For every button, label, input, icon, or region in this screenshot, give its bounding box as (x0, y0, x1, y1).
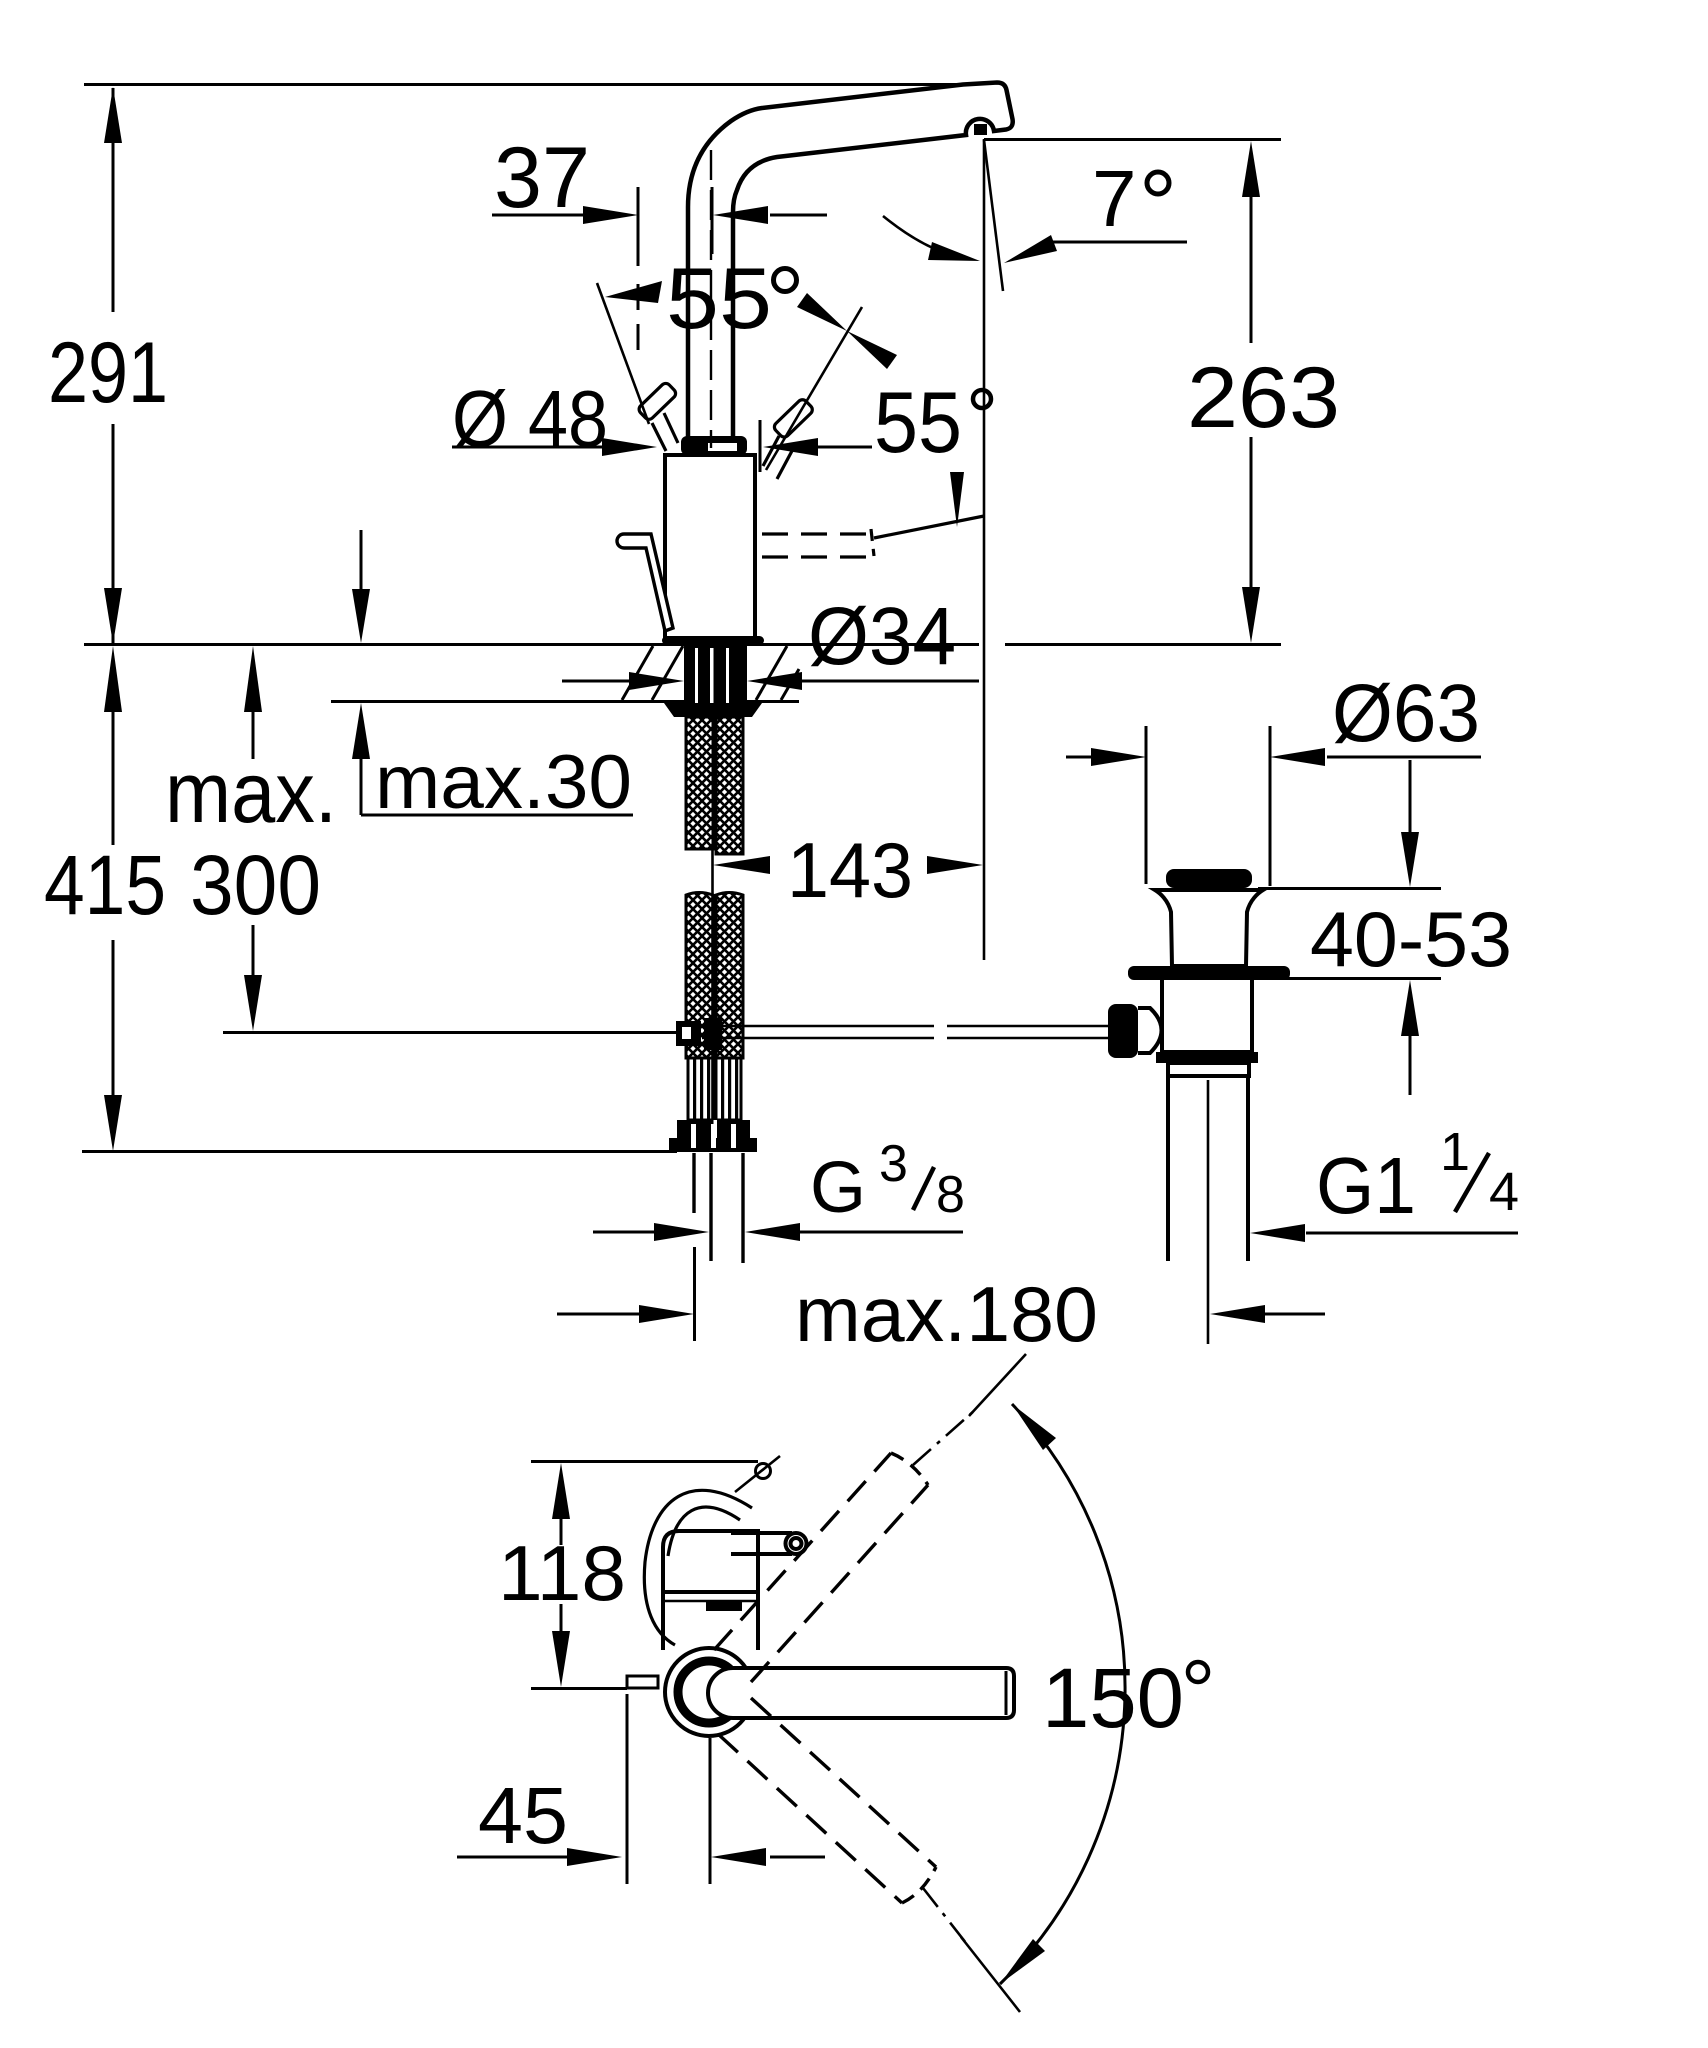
dimension Ø63 (1066, 726, 1481, 886)
drain gasket (1128, 966, 1290, 980)
118 bottom reference line (531, 1687, 627, 1690)
dimension 263 vertical (984, 140, 1281, 644)
threaded shank (684, 645, 747, 703)
drain body (1162, 980, 1252, 1052)
svg-text:55: 55 (666, 251, 772, 347)
svg-text:150: 150 (1042, 1651, 1184, 1745)
rod coupler (676, 1021, 701, 1046)
150-degree arc (1000, 1404, 1125, 1984)
svg-text:Ø34: Ø34 (808, 591, 956, 682)
drain lower bands (1156, 1052, 1258, 1063)
dimension 37 (492, 187, 827, 352)
svg-text:7: 7 (1092, 154, 1137, 243)
dimension max.180 (557, 1247, 1325, 1341)
handle lever (617, 534, 673, 631)
svg-text:G: G (810, 1148, 866, 1228)
svg-text:max.180: max.180 (795, 1270, 1098, 1358)
55-degree bowtie arrows (797, 293, 847, 331)
drain tailpipe (1168, 1076, 1248, 1261)
svg-text:118: 118 (498, 1529, 626, 1617)
svg-text:Ø63: Ø63 (1332, 668, 1480, 759)
dimension max.415 vertical (104, 646, 122, 1151)
lever plan (731, 1533, 807, 1554)
svg-text:4: 4 (1489, 1162, 1519, 1222)
svg-text:300: 300 (190, 838, 321, 932)
hose end nuts (677, 1120, 750, 1152)
118 top reference line (531, 1460, 758, 1463)
svg-text:55: 55 (874, 375, 962, 471)
lower ghost spout dashed (718, 1698, 936, 1903)
faucet body outline (665, 455, 755, 640)
lever tip circle (756, 1464, 771, 1479)
dimension Ø34 (562, 672, 979, 690)
dimension 291 (104, 87, 122, 644)
supply hoses lower (686, 893, 713, 1059)
top reference line (84, 83, 969, 86)
svg-text:291: 291 (48, 325, 168, 421)
lower ghost centerline (923, 1888, 966, 1943)
ghost lever left (637, 381, 678, 451)
dimension 118 (552, 1463, 570, 1687)
spout bar plan (708, 1668, 1014, 1718)
svg-text:37: 37 (494, 130, 590, 226)
counter hatching (622, 646, 653, 700)
supply tails (694, 1153, 743, 1263)
escutcheon stub (627, 1676, 658, 1688)
svg-text:45: 45 (478, 1771, 568, 1860)
dimension 45 (457, 1694, 825, 1884)
svg-text:1: 1 (1440, 1122, 1470, 1182)
dimension 40-53 (1258, 760, 1441, 1095)
300 bottom reference line / pull rod line (223, 1031, 676, 1034)
body plan joint lines (663, 1590, 758, 1594)
base plate (662, 636, 764, 645)
pull rod horizontal (702, 1026, 1108, 1038)
spout tip extension line (983, 139, 986, 960)
upper extreme line (969, 1354, 1026, 1416)
drain flange (1155, 890, 1263, 966)
cartridge cap black band (681, 436, 747, 455)
svg-text:G1: G1 (1316, 1141, 1416, 1230)
pivot ring (678, 1661, 740, 1723)
55-degree right wedge line (766, 307, 862, 470)
dashed lever ghost horizontal (762, 516, 984, 557)
upper ghost centerline (913, 1410, 975, 1465)
mounting nut (664, 703, 762, 717)
spout outline (688, 83, 1013, 456)
lower extreme line (961, 1937, 1020, 2012)
55-degree left wedge line (597, 283, 649, 424)
pull rod vertical (711, 850, 714, 1120)
dimension G3/8 (593, 1223, 963, 1241)
handle arcs plan (644, 1490, 752, 1645)
riser centerline (710, 150, 712, 448)
svg-text:Ø 48: Ø 48 (452, 374, 608, 463)
dimension 300 vertical (244, 646, 262, 1031)
svg-text:415: 415 (44, 838, 166, 932)
55-degree left arrowhead (605, 281, 662, 303)
drain button (1166, 869, 1252, 888)
415 bottom reference line (82, 1150, 677, 1153)
dimension Ø48 (452, 420, 872, 472)
hose connectors striped (688, 1058, 713, 1120)
diagonal through lever tip (735, 1456, 780, 1492)
tailpipe centerline (1207, 1080, 1210, 1344)
svg-text:max.30: max.30 (375, 740, 632, 825)
supply hoses upper (686, 717, 713, 849)
dimension max.30 arrows and leader (352, 530, 633, 815)
body plan outline (663, 1531, 758, 1650)
7-degree arc (883, 216, 960, 257)
55-degree-2 arrow (950, 472, 964, 527)
upper ghost spout dashed (714, 1453, 928, 1682)
counter underside line (331, 700, 799, 703)
7-degree leader (1052, 241, 1187, 244)
svg-text:max.: max. (165, 745, 337, 841)
aerator detail (974, 124, 987, 135)
drain knob (1108, 1004, 1138, 1058)
ghost lever right (763, 398, 814, 479)
svg-text:143: 143 (787, 826, 913, 914)
dimension G1 1/4 (1250, 1224, 1518, 1242)
pivot circle outer (665, 1648, 753, 1736)
countertop surface line (84, 643, 979, 646)
svg-text:263: 263 (1187, 350, 1340, 446)
svg-text:8: 8 (936, 1166, 965, 1224)
7-degree tilted line (984, 140, 1003, 291)
svg-text:3: 3 (879, 1135, 908, 1193)
dimension 143 (713, 856, 983, 874)
svg-text:40-53: 40-53 (1310, 895, 1512, 983)
